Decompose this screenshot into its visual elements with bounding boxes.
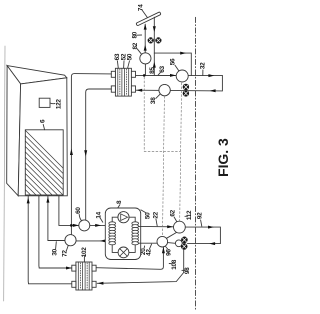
svg-text:22: 22	[152, 211, 159, 218]
arrow down from panel	[153, 26, 156, 32]
label 85	[149, 67, 156, 74]
label 82	[132, 42, 139, 49]
dashed control line valve 38 to valve 96	[163, 96, 165, 236]
svg-text:122: 122	[55, 99, 62, 110]
svg-text:8: 8	[116, 200, 123, 204]
arrow up into valve 96	[162, 247, 165, 253]
valve 96	[157, 236, 168, 247]
heat exchanger 50/52/63 (top)	[111, 68, 135, 96]
arrow right into valve 56	[170, 74, 176, 77]
arrow up on bypass segment	[153, 62, 156, 68]
svg-text:FIG. 3: FIG. 3	[215, 138, 231, 177]
condenser coil 14 (left)	[109, 222, 116, 245]
wire: unit evaporator to valve 96	[139, 242, 157, 244]
arrow up on riser	[70, 149, 73, 155]
mixing valve 60	[79, 220, 90, 231]
svg-text:102: 102	[81, 247, 88, 258]
arrow right on line 92	[208, 226, 214, 229]
label 96	[165, 249, 172, 256]
valve pair (dark) on collector return	[148, 37, 162, 43]
svg-text:92: 92	[196, 212, 203, 219]
arrow right into valve 62	[167, 225, 173, 228]
label 30	[52, 248, 59, 255]
arrow left out of unit	[100, 239, 106, 242]
svg-text:30: 30	[52, 248, 59, 255]
wire: collector supply riser x=145.2	[144, 24, 146, 53]
svg-text:85: 85	[149, 67, 156, 74]
svg-text:112: 112	[186, 210, 193, 220]
svg-text:32: 32	[199, 62, 206, 69]
dashed control horizontal	[144, 150, 180, 152]
node: junction of pump82 drop and line 32	[143, 74, 146, 77]
label 92	[196, 212, 203, 219]
svg-text:42: 42	[145, 249, 152, 256]
expansion valve (circle with X)	[118, 247, 129, 258]
wire: tank pipe x=47.9 to valve 72	[48, 196, 65, 241]
arrow right on line 32 at right	[208, 74, 214, 77]
refrigerant pipes inside unit	[112, 217, 135, 252]
svg-text:63: 63	[159, 66, 166, 73]
label 6	[39, 119, 46, 123]
page edge artifact	[4, 46, 5, 301]
label 62	[169, 209, 176, 216]
valve pair (dark) on return line	[183, 84, 189, 97]
arrow up into panel	[144, 24, 147, 30]
label 63 (mid)	[159, 66, 166, 73]
hatched coil region in tank	[0, 125, 100, 270]
arrow right on bypass	[180, 52, 186, 55]
dash-dot boundary line 112	[195, 17, 197, 310]
wire: HX2 upper-right up to valve 96 (line 108)	[96, 247, 163, 269]
wire: load U-turn top	[136, 76, 222, 91]
arrow right into HX2 upper-left	[66, 267, 72, 270]
arrow right into valve 60	[73, 224, 79, 227]
wire: load U-turn bottom (line 92)	[185, 227, 220, 244]
svg-text:82: 82	[132, 42, 139, 49]
label 8	[116, 200, 123, 204]
label 52 (HX1)	[121, 53, 128, 60]
svg-text:50: 50	[127, 53, 134, 60]
wire: valve 60 to heat pump unit	[90, 224, 109, 226]
label 32	[199, 62, 206, 69]
wire: riser x=71.4 tank top to HX1	[71, 74, 111, 235]
arrow up into tank x=47.9	[46, 197, 49, 203]
electric heater box 122	[39, 98, 50, 107]
label 14	[96, 211, 103, 218]
svg-text:96: 96	[165, 249, 172, 256]
label 74	[137, 4, 144, 11]
wire: tank pipe x=58.9 to valve 60	[59, 196, 79, 226]
wire: dark valves down to HX2 lower-right (line 98)	[97, 250, 184, 284]
connector valve62 to valve96	[167, 233, 177, 239]
pump 72	[65, 235, 76, 246]
wire: line 22 unit to valve 62	[139, 225, 174, 227]
svg-text:62: 62	[169, 209, 176, 216]
arrow left on bottom return	[209, 242, 215, 245]
label 108	[171, 259, 178, 270]
label 50 (HX1)	[127, 53, 134, 60]
label 63 (HX1)	[114, 53, 121, 60]
label 56	[169, 58, 176, 65]
mixing valve 38	[159, 84, 170, 95]
small circle valve	[175, 240, 182, 247]
arrow up above pump 82	[144, 45, 147, 51]
label 60	[75, 207, 82, 214]
valve pair (dark) bottom	[181, 237, 188, 250]
label 72	[62, 250, 69, 257]
label 122	[55, 99, 62, 110]
label 50 (unit)	[145, 212, 152, 219]
arrow left into HX1 lower right stub	[136, 89, 142, 92]
wire: tank bottom pipe x=28.2 down to HX2	[28, 196, 72, 284]
label 112	[186, 210, 193, 220]
wire: collector return drop x=154.3	[153, 17, 155, 75]
node: junction riser / valve60 feed	[70, 224, 73, 227]
label 20	[140, 248, 147, 255]
dashed control line valve 56 to valve 62	[180, 83, 182, 221]
label 102	[81, 247, 88, 258]
label 38	[150, 97, 157, 104]
wire: pump 82 down to line 32	[144, 64, 146, 75]
arrow left on return line	[210, 89, 216, 92]
arrow up into tank x=28.2	[27, 197, 30, 203]
svg-text:74: 74	[137, 4, 144, 11]
wire: unit to pump 72	[76, 240, 109, 242]
compressor (circle with triangle)	[118, 212, 129, 223]
valve 62	[174, 221, 186, 233]
connector valve96 to dark valves	[168, 242, 176, 245]
arrow down on return	[84, 150, 87, 156]
wire: tank pipe x=38.9 to HX2 upper	[39, 196, 72, 268]
evaporator coil (right)	[132, 222, 139, 245]
svg-text:60: 60	[75, 207, 82, 214]
label 80	[131, 31, 138, 38]
wire: HX1 lower-left return down x=85.7	[86, 89, 112, 220]
label 98	[184, 267, 191, 274]
arrow left into HX2 lower-right	[97, 282, 103, 285]
svg-text:108: 108	[171, 259, 178, 270]
solar collector panel 74	[136, 12, 161, 26]
arrow right into unit	[95, 224, 101, 227]
heat pump unit 8 (rounded box)	[105, 208, 140, 260]
label 42	[145, 249, 152, 256]
pump 82	[140, 53, 151, 64]
wire: line 32 (HX1 to load loop)	[135, 74, 176, 76]
dashed control line from junction 85 down	[144, 77, 181, 236]
FIG. 3 caption	[215, 138, 231, 177]
heat exchanger 102 (bottom)	[72, 262, 96, 290]
wire: top bypass horizontal y=53	[154, 53, 191, 75]
svg-text:72: 72	[62, 250, 69, 257]
svg-text:14: 14	[96, 211, 103, 218]
label 22	[152, 211, 159, 218]
storage tank (3D box)	[7, 66, 68, 196]
valve 56	[176, 70, 188, 82]
svg-text:56: 56	[169, 58, 176, 65]
